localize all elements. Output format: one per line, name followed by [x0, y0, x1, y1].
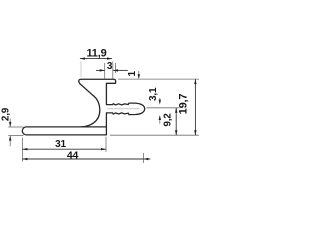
extension line x=112.8 (11,9 right / 3 right)	[112, 62, 114, 79]
svg-text:3,1: 3,1	[148, 87, 159, 101]
arrowhead 2,9 top	[9, 122, 11, 127]
extension line wall right x=106 (31 right)	[105, 137, 107, 152]
arrowhead 3 right	[113, 69, 118, 71]
arrowhead 31 left	[22, 148, 27, 150]
svg-text:44: 44	[67, 150, 79, 162]
arrowhead 44 right	[143, 158, 148, 160]
barb centre slit	[108, 108, 140, 110]
extension line x=115.6 (lip end, dim 1)	[115, 63, 117, 73]
extension line flange bottom left y=135.5 (2,9)	[8, 135, 23, 137]
dim 2,9 upper arrow stub	[9, 119, 11, 127]
dim 3,1 upper arrow stub	[159, 98, 161, 100]
arrowhead 9,2 bottom	[175, 130, 177, 135]
arrowhead 19,7 top	[194, 79, 196, 84]
dimension line 44 right tail	[143, 158, 150, 160]
extension line x=104.7 (3 left)	[104, 63, 106, 79]
dimension line 31	[22, 148, 106, 150]
arrowhead 31 right	[101, 148, 106, 150]
extension line flange left end x=22.4 (31 / 44 left)	[21, 138, 23, 162]
arrowhead 19,7 bottom	[194, 130, 196, 135]
arrowhead 3,1 bottom	[159, 115, 161, 120]
dimension line 3 left segment	[96, 69, 105, 71]
arrowhead 11,9 left	[80, 57, 85, 59]
arrowhead 44 left	[22, 158, 27, 160]
svg-text:31: 31	[55, 139, 66, 150]
dim 3,1 lower arrow stub	[159, 120, 161, 124]
dimension line 11,9	[80, 58, 112, 60]
white background	[0, 0, 200, 200]
arrowhead 3 left	[100, 69, 105, 71]
dimension line 3 right segment	[113, 69, 128, 71]
profile outline: top lip, wall, barbed anchor, bottom flange, throat curve, beak	[22, 79, 144, 135]
svg-text:9,2: 9,2	[162, 113, 173, 127]
svg-text:11,9: 11,9	[86, 48, 106, 60]
arrowhead 11,9 right	[107, 57, 112, 59]
svg-text:1: 1	[127, 70, 138, 76]
svg-text:2,9: 2,9	[0, 107, 11, 121]
arrowhead 3,1 top	[159, 100, 161, 105]
extension line barb middle y=107.8 (3,1 / 9,2)	[147, 107, 180, 109]
dim 2,9 lower arrow stub	[9, 136, 11, 147]
extension line flange top left y=127 (2,9)	[8, 126, 23, 128]
extension line profile bottom y=135.2 (9,2 / 19,7 bottom)	[110, 134, 199, 136]
dimension line 9,2	[175, 108, 177, 135]
svg-text:19,7: 19,7	[177, 94, 189, 115]
extension line beak nose (11,9 left)	[80, 61, 82, 77]
svg-text:3: 3	[107, 61, 113, 72]
dimension line 19,7	[194, 79, 196, 135]
arrowhead 1	[138, 74, 140, 79]
arrowhead 9,2 top	[175, 108, 177, 113]
dim 1 arrow stub	[138, 71, 140, 75]
extension line profile top y=79.1 (19,7 top)	[118, 78, 199, 80]
dimension line 44	[22, 158, 143, 160]
extension line barb tip x=143.4 (44 right)	[142, 153, 144, 163]
flange top edge continuation to wall	[82, 126, 107, 128]
arrowhead 2,9 bottom	[9, 136, 11, 141]
